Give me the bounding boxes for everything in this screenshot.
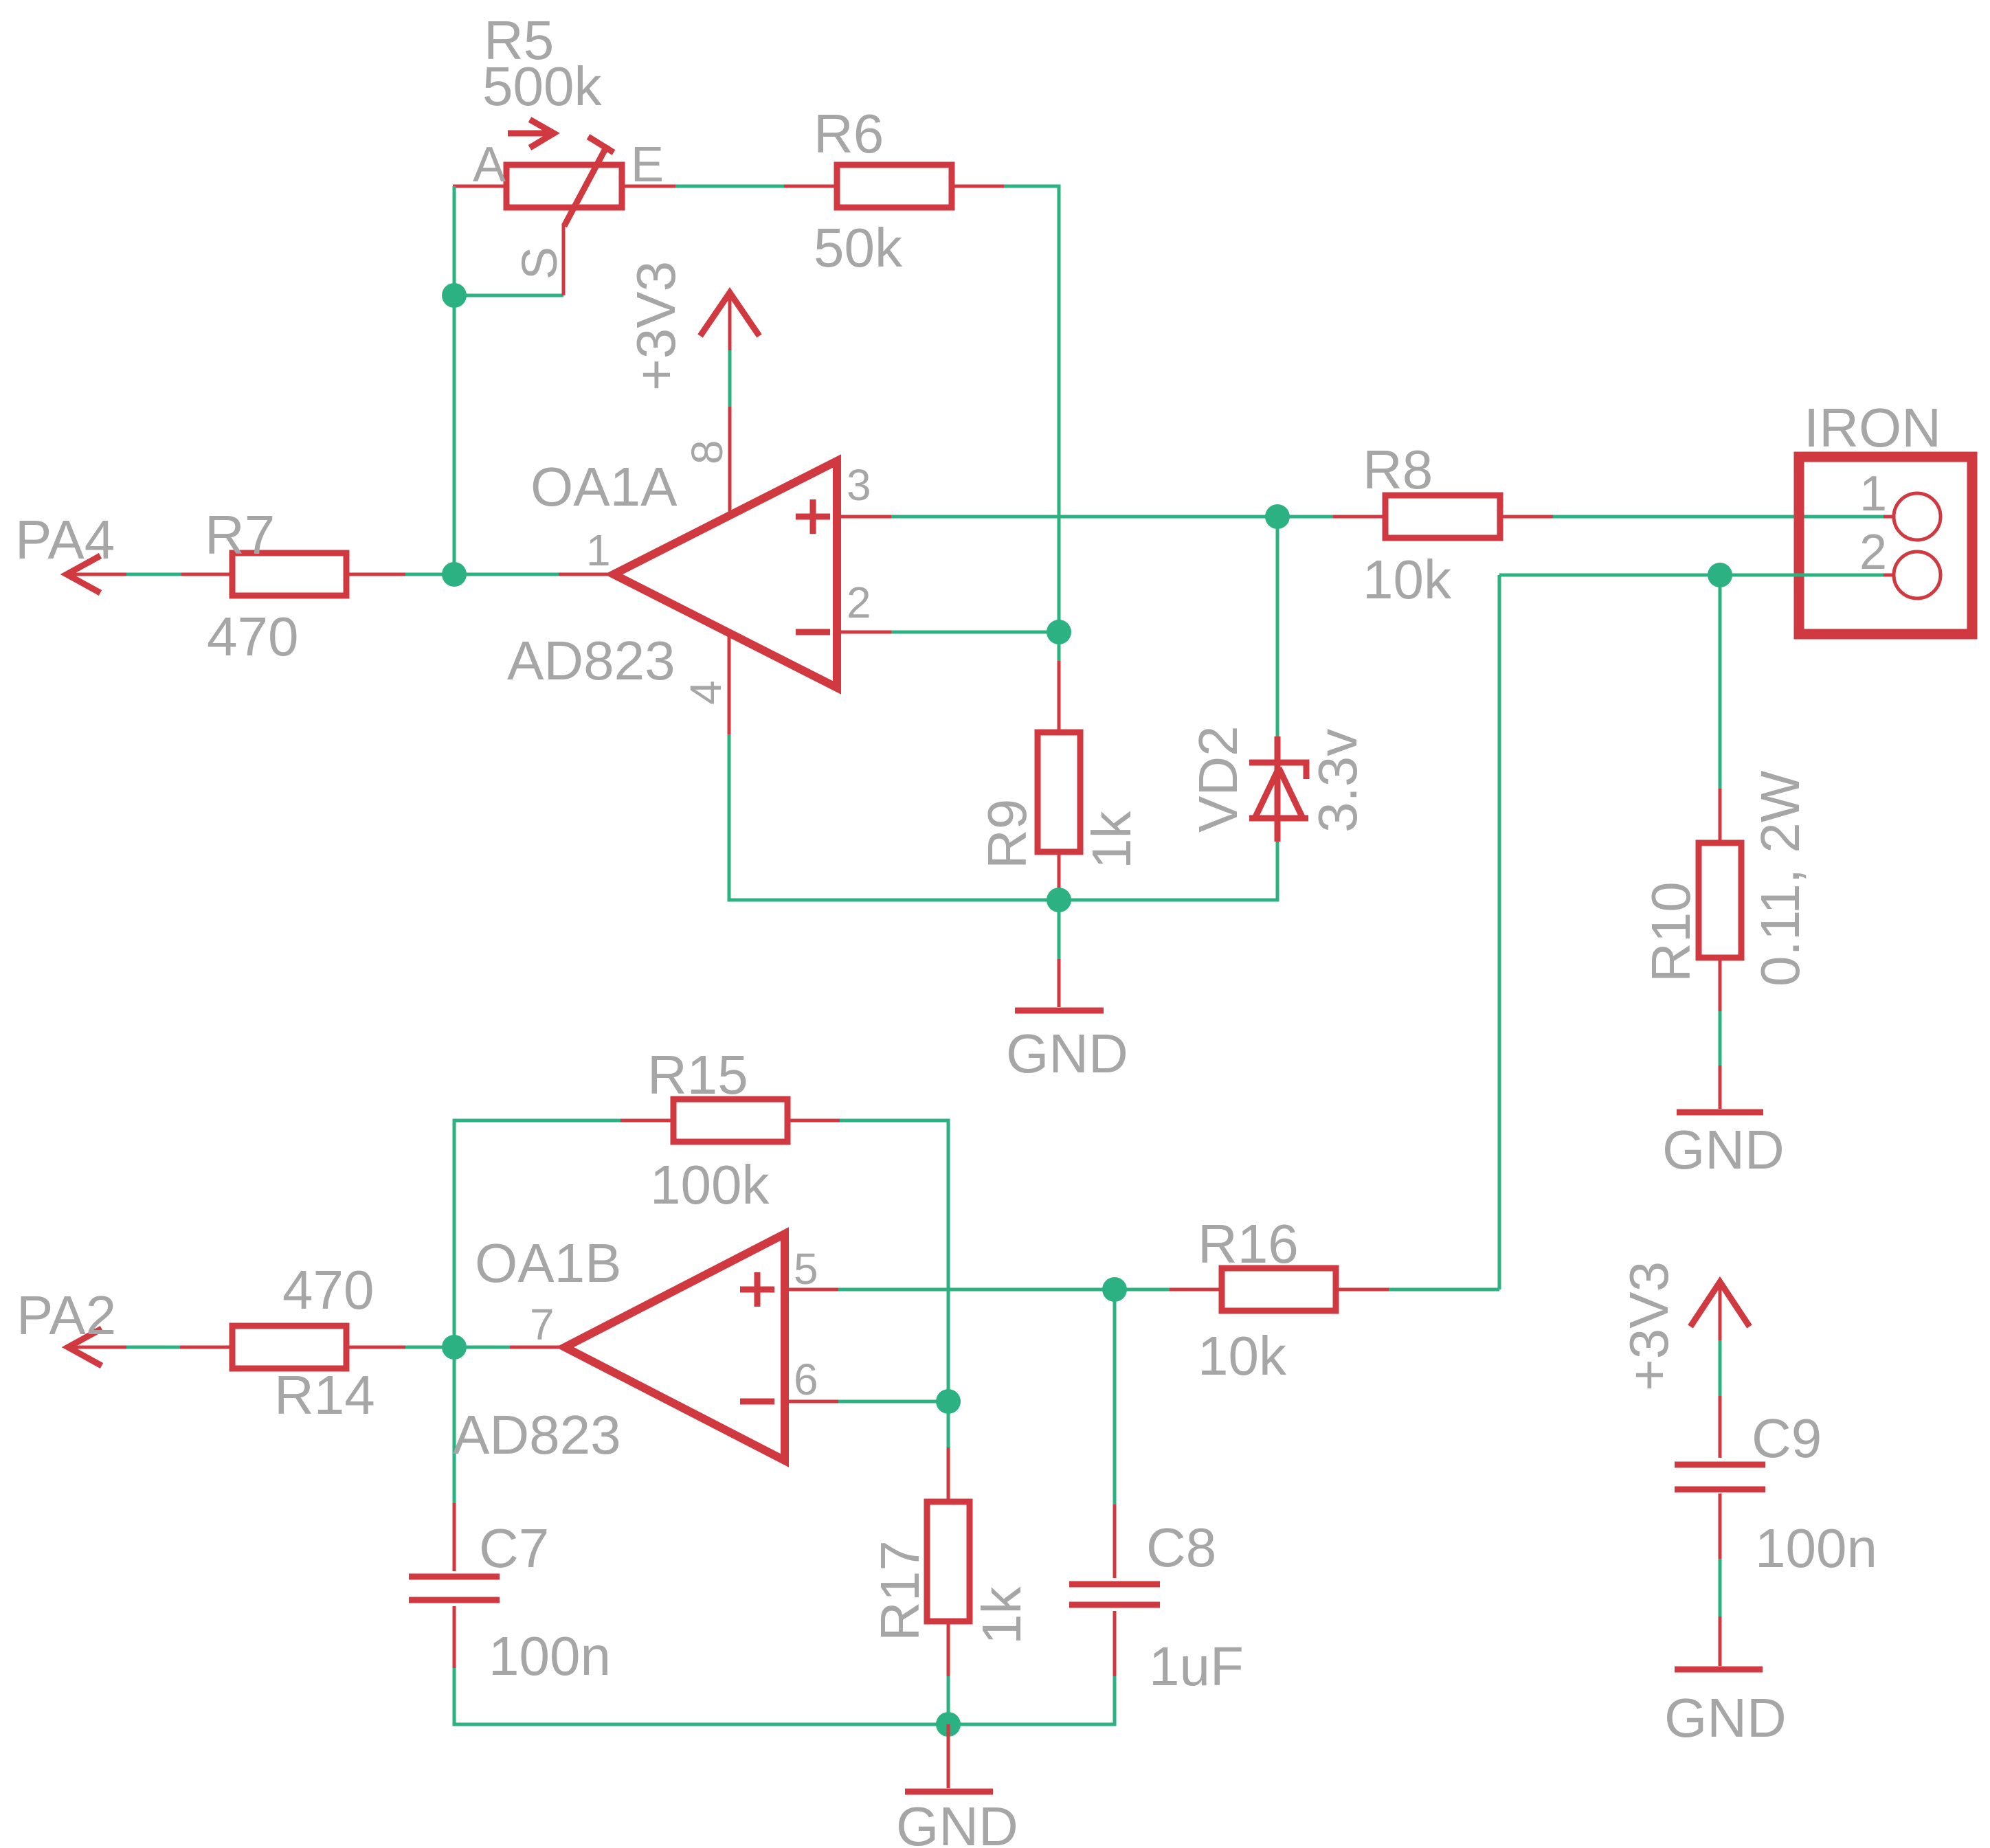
svg-text:+3V3: +3V3 — [625, 261, 686, 391]
svg-text:2: 2 — [847, 578, 871, 627]
node junction GND rail — [936, 1712, 961, 1737]
connector IRON pin1 circle — [1894, 493, 1941, 540]
svg-text:GND: GND — [896, 1796, 1018, 1848]
wire VD2 top net — [1276, 517, 1279, 736]
svg-text:R14: R14 — [274, 1364, 375, 1426]
wire C8 to GND rail — [948, 1676, 1115, 1724]
pin 7 stub OA1B — [510, 1346, 565, 1349]
svg-text:2: 2 — [1859, 525, 1887, 580]
wire GND stem R9 — [1058, 900, 1061, 959]
node junction pin2 — [1047, 620, 1071, 644]
wire R10 top stub — [1719, 789, 1722, 843]
svg-text:R16: R16 — [1198, 1213, 1299, 1274]
pin 3 stub OA1A — [837, 515, 891, 519]
svg-text:R7: R7 — [205, 504, 275, 565]
svg-text:E: E — [631, 137, 664, 192]
wire R7 right stub — [346, 573, 405, 576]
svg-text:3.3v: 3.3v — [1307, 729, 1368, 833]
svg-text:PA4: PA4 — [15, 509, 115, 570]
wire R6 right stub — [952, 185, 1004, 188]
wire C9 to GND — [1719, 1559, 1722, 1616]
svg-text:5: 5 — [794, 1244, 818, 1294]
op-amp OA1B triangle — [565, 1234, 785, 1461]
wire R16 to IRON pin2 net — [1389, 1288, 1499, 1292]
wire PA4 to R7 — [126, 573, 181, 576]
svg-text:A: A — [473, 137, 506, 192]
svg-text:100n: 100n — [1755, 1518, 1877, 1579]
wire R14 to OA1B.7 — [405, 1346, 510, 1349]
wire PA2 to R14 — [126, 1346, 180, 1349]
node junction R7 out — [442, 562, 467, 587]
resistor R14 body — [232, 1326, 346, 1368]
svg-text:0.11, 2W: 0.11, 2W — [1749, 770, 1811, 987]
resistor R9 body — [1038, 732, 1080, 852]
node junction pin6/R17 — [936, 1389, 961, 1414]
node junction R8 left — [1265, 504, 1290, 529]
svg-text:8: 8 — [682, 440, 732, 464]
supply +3V3 stem C9 — [1719, 1282, 1722, 1340]
pin 8 stub OA1A — [728, 407, 732, 517]
svg-text:1k: 1k — [1081, 811, 1142, 869]
connector IRON pin1 stub — [1883, 515, 1894, 519]
svg-text:OA1B: OA1B — [475, 1232, 621, 1294]
svg-text:3: 3 — [847, 460, 871, 510]
wire R14 right stub — [346, 1346, 405, 1349]
node junction pin5/C8 — [1102, 1277, 1127, 1302]
svg-text:PA2: PA2 — [16, 1285, 116, 1346]
wire R15 left stub — [621, 1119, 673, 1123]
connector IRON box — [1799, 457, 1972, 634]
node junction R9 bottom — [1047, 888, 1071, 912]
svg-text:AD823: AD823 — [507, 630, 675, 691]
svg-text:GND: GND — [1662, 1119, 1785, 1180]
wire R6 to pin2 net — [1004, 186, 1059, 632]
node junction OA1B in — [442, 1335, 467, 1360]
svg-text:R6: R6 — [814, 103, 884, 164]
wire C8 junction to R16 — [1115, 1288, 1170, 1292]
wire R17 bottom stub — [947, 1621, 950, 1676]
svg-text:100k: 100k — [650, 1154, 770, 1215]
pin 1 stub OA1A — [559, 573, 614, 576]
svg-text:7: 7 — [530, 1300, 555, 1349]
wire pin5 to C8 junction — [838, 1288, 1115, 1292]
capacitor C9 plates — [1675, 1465, 1765, 1489]
wire R15 left leg — [454, 1120, 621, 1347]
resistor R15 body — [673, 1099, 787, 1142]
svg-text:C9: C9 — [1752, 1408, 1822, 1469]
svg-text:AD823: AD823 — [453, 1404, 621, 1465]
wire R8 left stub — [1333, 515, 1385, 519]
resistor R10 body — [1699, 843, 1741, 958]
wire R7 to OA1A.1 — [405, 573, 559, 576]
svg-text:+3V3: +3V3 — [1618, 1261, 1679, 1391]
svg-text:R10: R10 — [1640, 881, 1701, 982]
wire C7 to GND rail — [454, 1668, 1115, 1724]
op-amp OA1A plus sign — [796, 499, 830, 534]
svg-text:6: 6 — [794, 1355, 818, 1404]
node junction R10 top — [1708, 563, 1732, 587]
capacitor C7 plates — [409, 1577, 500, 1600]
supply +3V3 arrow C9 — [1690, 1282, 1749, 1327]
resistor R7 body — [232, 553, 346, 596]
svg-text:50k: 50k — [814, 217, 903, 278]
wire junction to R9 — [1058, 632, 1061, 661]
wire pin6 to junction — [838, 1400, 948, 1404]
wire C9 top stub — [1719, 1396, 1722, 1458]
svg-text:C8: C8 — [1146, 1517, 1216, 1578]
wire VD2 bottom to rail — [1059, 842, 1277, 900]
svg-text:470: 470 — [282, 1259, 374, 1320]
PA4 arrow — [67, 556, 100, 593]
svg-text:IRON: IRON — [1804, 397, 1941, 458]
svg-text:100n: 100n — [489, 1625, 611, 1687]
potentiometer R5 wiper — [564, 137, 614, 226]
wire pin4 to GND rail — [729, 734, 1059, 900]
svg-text:R9: R9 — [976, 799, 1038, 869]
resistor R6 body — [837, 165, 952, 207]
wire R17 top stub — [947, 1447, 950, 1502]
connector IRON pin2 circle — [1894, 552, 1941, 598]
wire R16 left stub — [1170, 1288, 1222, 1292]
wire R7 left stub — [181, 573, 232, 576]
wire R8 right stub — [1500, 515, 1553, 519]
potentiometer R5 body — [506, 165, 622, 207]
wire pin3 to R8 junction — [891, 515, 1277, 519]
connector IRON pin2 stub — [1883, 574, 1894, 577]
wire IRON pin2 net — [1499, 574, 1883, 577]
wire +3V3 net — [728, 350, 732, 407]
wire R10 bottom stub — [1719, 958, 1722, 1011]
svg-text:GND: GND — [1006, 1023, 1128, 1084]
wire R5.S pin stub — [562, 224, 566, 295]
supply +3V3 arrow OA1A — [700, 293, 759, 336]
svg-text:1: 1 — [1859, 466, 1887, 521]
wire net from R5.A down to R7 junction — [453, 186, 456, 574]
svg-text:VD2: VD2 — [1187, 725, 1249, 833]
resistor R17 body — [927, 1502, 970, 1621]
wire R6 left stub — [784, 185, 837, 188]
svg-text:C7: C7 — [479, 1518, 549, 1579]
wire pin2 net down to R16 — [1498, 575, 1501, 1289]
wire C7 bottom stub — [453, 1606, 456, 1668]
wire C7 top leg — [453, 1347, 456, 1503]
ground symbol rail — [947, 1724, 950, 1788]
wire R14 left stub — [180, 1346, 232, 1349]
wire +3V3 to C9 — [1719, 1340, 1722, 1396]
PA2 arrow — [68, 1329, 102, 1366]
wire R9 top stub — [1058, 661, 1061, 732]
op-amp OA1A minus sign — [796, 629, 830, 635]
ground symbol R9 — [1058, 959, 1061, 1007]
wire R16 right stub — [1336, 1288, 1389, 1292]
wire R8 junction to stub — [1277, 515, 1333, 519]
ground symbol R10 — [1719, 1066, 1722, 1109]
pin 5 stub OA1B — [785, 1288, 838, 1292]
svg-text:1: 1 — [586, 526, 611, 575]
op-amp OA1B minus sign — [740, 1399, 774, 1405]
wire R5.A stub — [453, 185, 506, 188]
wire R8 to IRON pin1 — [1553, 515, 1883, 519]
svg-text:R15: R15 — [647, 1044, 748, 1105]
svg-text:1uF: 1uF — [1149, 1636, 1244, 1697]
wire PA4 stub — [67, 573, 126, 576]
wire R9 bottom stub — [1058, 852, 1061, 900]
svg-text:S: S — [513, 247, 568, 280]
wire pin2 to junction — [891, 631, 1059, 634]
wire R10 to GND — [1719, 1011, 1722, 1066]
node junction R5.S — [442, 283, 467, 308]
svg-text:OA1A: OA1A — [530, 456, 678, 517]
wire R5.E stub — [622, 185, 675, 188]
potentiometer R5 arrow — [508, 120, 554, 148]
ground symbol C9 — [1719, 1616, 1722, 1666]
pin 2 stub OA1A — [837, 631, 891, 634]
wire R15 to pin6 junction — [840, 1120, 948, 1401]
wire C7 top stub — [453, 1503, 456, 1571]
zener diode VD2 — [1275, 736, 1281, 842]
resistor R8 body — [1385, 495, 1500, 538]
svg-text:10k: 10k — [1198, 1325, 1287, 1386]
op-amp OA1B plus sign — [740, 1272, 774, 1307]
supply +3V3 stem — [728, 293, 732, 350]
wire C9 bottom stub — [1719, 1494, 1722, 1559]
pin 6 stub OA1B — [785, 1400, 838, 1404]
op-amp OA1A triangle — [614, 461, 837, 688]
wire S net horizontal — [454, 294, 563, 297]
wire C8 top leg — [1113, 1289, 1117, 1505]
svg-text:GND: GND — [1664, 1687, 1787, 1748]
wire R15 right stub — [787, 1119, 840, 1123]
capacitor C8 plates — [1069, 1584, 1160, 1605]
svg-text:R8: R8 — [1363, 439, 1433, 500]
svg-text:4: 4 — [681, 680, 730, 705]
pin 4 stub OA1A — [728, 632, 731, 734]
resistor R16 body — [1222, 1268, 1336, 1311]
svg-text:R17: R17 — [869, 1540, 930, 1641]
wire C8 bottom stub — [1113, 1611, 1117, 1676]
wire junction to R17 — [947, 1401, 950, 1447]
svg-text:470: 470 — [207, 606, 298, 667]
wire R5 to R6 — [675, 185, 784, 188]
wire R17 to GND rail — [947, 1676, 950, 1724]
wire R10 top net — [1719, 575, 1722, 789]
wire PA2 stub — [68, 1346, 126, 1349]
wire C8 top stub — [1113, 1505, 1117, 1578]
svg-text:500k: 500k — [482, 56, 602, 117]
svg-text:10k: 10k — [1363, 549, 1452, 610]
svg-text:1k: 1k — [971, 1586, 1032, 1645]
